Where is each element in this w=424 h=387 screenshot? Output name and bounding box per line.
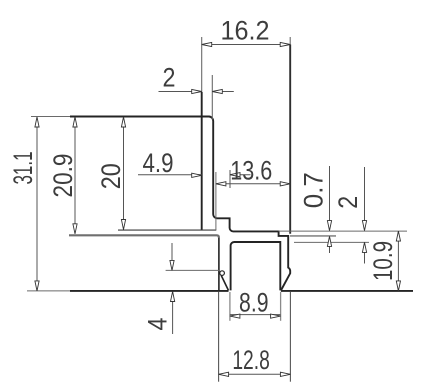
svg-text:2: 2 xyxy=(333,196,363,209)
dim 2 right upper line with down arrow xyxy=(364,167,366,231)
profile: bottom surface left part xyxy=(70,290,229,292)
profile: left web gray top surface xyxy=(69,235,219,237)
extension: left wall outer above (for 16.2 and 2) xyxy=(201,37,203,92)
extension: bottom-left thin of bottom surface xyxy=(27,290,70,292)
profile: right wall outer face xyxy=(289,45,291,234)
extension: recess bottom (0.7 lower) xyxy=(290,235,336,237)
dim 0.7 lower line with up arrow xyxy=(329,236,331,253)
svg-text:20: 20 xyxy=(96,163,126,189)
profile: bottom surface right part xyxy=(281,290,413,292)
dim 20.9 line xyxy=(74,117,76,234)
dim 12.8 arrow right xyxy=(280,372,290,376)
profile: left wall outer face xyxy=(201,92,203,230)
dim 16.2 line xyxy=(202,44,291,46)
svg-text:20.9: 20.9 xyxy=(48,154,78,198)
svg-text:13.6: 13.6 xyxy=(230,156,272,186)
dim 2 right lower line with up arrow xyxy=(364,242,366,263)
svg-text:8.9: 8.9 xyxy=(239,288,269,318)
svg-text:4.9: 4.9 xyxy=(143,148,174,178)
dim 10.9 arrow down xyxy=(396,281,400,291)
extension: 12.8 right xyxy=(289,292,291,382)
dim 0.7 upper line with down arrow xyxy=(329,166,331,231)
dim 31.1 arrow down xyxy=(35,281,39,291)
dim 20 arrow down xyxy=(121,220,125,230)
dim 2 top line right with arrow (points left) xyxy=(212,91,234,93)
extension: top-left thin of top surface xyxy=(31,116,70,118)
extension: left wall inner face (for 2 top) xyxy=(211,75,213,120)
dim 13.6 arrow right xyxy=(280,182,290,186)
dim 8.9 line xyxy=(230,314,281,316)
profile: left web thin top line xyxy=(118,229,216,231)
dim 20.9 arrow up xyxy=(73,117,77,127)
dim 12.8 line xyxy=(219,373,291,375)
extension: 12.8 left xyxy=(218,292,220,382)
dim 16.2 arrow right xyxy=(280,42,290,46)
dim 31.1 line xyxy=(36,117,38,291)
profile: web bottom and channel inner faces xyxy=(231,242,281,290)
extension: right wall outer above (for 16.2) xyxy=(289,37,291,45)
dim 12.8 arrow left xyxy=(219,372,229,376)
extension: right web top line long (0.7 / 2 / 10.9) xyxy=(279,230,407,232)
extension: for 13.6 left xyxy=(215,172,217,230)
dim 20 line xyxy=(123,117,125,230)
profile: bottom channel left outer face + foot chamfer xyxy=(219,238,229,291)
dim 13.6 arrow left xyxy=(216,182,226,186)
dim 4 upper line with down arrow xyxy=(171,243,173,270)
dim 13.6 line xyxy=(216,183,290,185)
svg-text:2: 2 xyxy=(163,62,176,92)
dim 16.2 arrow left xyxy=(202,42,212,46)
dim 2 top arrow (points right) xyxy=(192,89,202,93)
dim 10.9 line xyxy=(397,231,399,291)
dim 4.9 line xyxy=(138,174,202,176)
svg-text:16.2: 16.2 xyxy=(221,16,270,46)
svg-text:12.8: 12.8 xyxy=(232,345,270,375)
svg-text:4: 4 xyxy=(143,318,173,331)
svg-text:10.9: 10.9 xyxy=(368,241,398,281)
svg-text:0.7: 0.7 xyxy=(299,172,329,208)
dim 31.1 arrow up xyxy=(35,117,39,127)
dim 2 top line left xyxy=(159,91,202,93)
svg-text:31.1: 31.1 xyxy=(8,152,38,185)
extension: 8.9 right xyxy=(280,292,282,321)
profile: top flange top surface with inner corner fillet, inner wall, step xyxy=(70,117,290,291)
dim 4 lower line with up arrow xyxy=(172,292,174,335)
extension: web bottom right (2 lower) xyxy=(294,241,369,243)
dim 20.9 arrow down xyxy=(73,224,77,234)
dim 20 arrow up xyxy=(121,117,125,127)
extension: 4 dim top xyxy=(166,269,219,271)
dim 4.9 right arrow (points left) with tail xyxy=(230,174,251,176)
dim 8.9 arrow left xyxy=(230,314,240,318)
dim 10.9 arrow up xyxy=(396,231,400,241)
extension: 8.9 left xyxy=(229,292,231,321)
dim 8.9 arrow right xyxy=(271,314,281,318)
profile: screw channel circle xyxy=(220,271,225,276)
dim 4.9 arrow (points right) xyxy=(192,173,202,177)
extension: 4.9 right at step edge xyxy=(229,170,231,188)
